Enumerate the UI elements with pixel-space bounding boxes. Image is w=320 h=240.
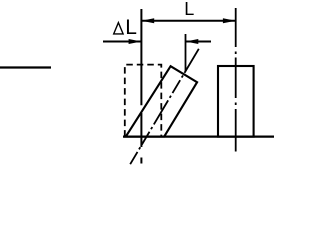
- baseline: [123, 136, 274, 138]
- dimension L line: [141, 20, 235, 22]
- svg-text:L: L: [184, 0, 194, 19]
- dashed nominal rectangle: [125, 65, 162, 137]
- extension tick: [185, 34, 187, 72]
- tilted block: [126, 66, 197, 136]
- right block centre line: [235, 8, 237, 152]
- nominal centre line: [140, 9, 142, 164]
- right block: [218, 66, 254, 137]
- left reference line: [0, 66, 51, 68]
- arrowhead left of L: [141, 18, 154, 23]
- svg-text:L: L: [125, 16, 137, 39]
- label dL: [114, 23, 123, 34]
- tilted centre line: [130, 49, 199, 164]
- dimension dL right line: [186, 41, 212, 43]
- arrowhead right of L: [223, 18, 236, 23]
- arrowhead dL left: [129, 39, 142, 44]
- arrowhead dL right: [186, 39, 199, 44]
- dimension dL left line: [103, 41, 141, 43]
